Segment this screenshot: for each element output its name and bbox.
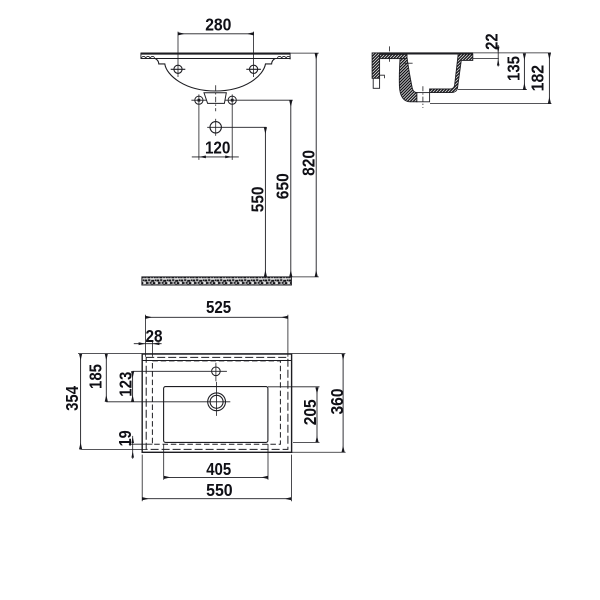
dim 28 [134,343,162,345]
back deck solid line [142,360,291,362]
svg-text:135: 135 [504,56,524,81]
wall bracket lower plate [373,78,379,88]
extension line mounting hole left [177,32,179,77]
dashed rim rectangle outer [146,357,288,449]
svg-text:19: 19 [115,430,135,446]
bowl bottom, front wall and front lip band (section) [430,54,473,93]
dim line 123 [132,371,134,402]
svg-text:123: 123 [115,372,135,397]
19 top extension [129,443,153,445]
dim line 820 [315,53,317,277]
extension line mounting hole right [253,32,255,77]
bracket hook [380,75,385,78]
stub centreline [422,86,424,108]
rim right end cap [289,53,291,59]
svg-text:550: 550 [206,480,233,500]
dim line 525 [145,316,288,318]
trap centre dash-dot line [215,85,217,111]
svg-text:205: 205 [300,399,320,425]
faucet hole [212,367,221,376]
525 extension left [144,315,146,357]
dim line 205 [316,387,318,442]
svg-text:650: 650 [272,173,292,199]
overflow tick [403,62,413,64]
faucet crosshair + 123 top extension [133,370,227,372]
360 bottom extension [292,451,346,453]
outer rectangle [142,354,291,452]
bowl rectangle [164,387,268,443]
mounting hole right [250,65,258,73]
rim bead bumps left [142,56,155,58]
dim line 280 [178,33,254,35]
dim 22 arrows [497,45,499,67]
550 extension right [290,455,292,502]
dim line 550 vertical [264,127,266,277]
drain outlet stub [417,93,430,102]
back wall and trap elbow band (section) [399,59,417,102]
svg-text:120: 120 [205,137,231,157]
525 extension right [287,315,289,357]
waste trap trapezoid [204,93,226,104]
bowl outer profile curve [155,59,275,92]
rim bead bumps right [277,56,290,58]
fixing bolt right [228,96,236,104]
top shared extension line (354/185/360) [78,353,345,355]
bracket hole centreline [389,46,391,63]
extension rim to 820 dim [290,52,318,54]
svg-text:405: 405 [206,459,231,479]
550 extension left [141,455,143,502]
back deck band (section) [380,54,407,58]
drain horizontal crosshair + 185/123 bottom extension [106,401,230,403]
205 top extension [268,386,320,388]
drain crosshair + extension to 550 [207,126,266,128]
svg-text:22: 22 [482,33,502,50]
floor strip [142,277,292,285]
deck top thick line [380,52,473,54]
205 bottom extension [293,441,320,443]
basin rim top edge [141,53,291,55]
drain outer circle [208,393,226,411]
svg-text:185: 185 [86,364,106,389]
22 lower reference line [473,58,499,60]
drain vertical crosshair [216,382,218,416]
dim line 360 [342,354,344,453]
deck extension line to 135/182 [473,52,551,54]
dashed rim rectangle inner [152,361,280,444]
stub bottom extension line [430,103,552,105]
rim second line [141,58,290,60]
dim 19 arrows [132,436,134,459]
svg-text:28: 28 [146,326,163,346]
drain inner circle [210,395,223,408]
svg-text:820: 820 [298,150,318,176]
dim line 354 [80,354,82,450]
fixing bolt left [195,96,203,104]
mounting hole left [174,65,182,73]
extension floor to 820 dim [292,276,319,278]
svg-text:182: 182 [528,65,548,92]
354/19 bottom extension [81,448,147,450]
bowl depth extension line [458,89,527,91]
drain hole circle [210,122,221,133]
svg-text:360: 360 [327,389,347,415]
dim line 182 [548,53,550,104]
dim line 135 [523,53,525,89]
dim line 550 [142,498,291,500]
svg-text:354: 354 [62,386,82,411]
svg-text:280: 280 [205,14,231,34]
405 extension right [267,444,269,480]
svg-text:525: 525 [206,297,232,317]
wall bracket hatched bar [372,53,380,78]
svg-text:550: 550 [248,187,268,213]
dim line 650 [290,100,292,277]
dim line 185 [105,354,107,402]
rim left end cap [140,53,142,59]
405 extension left [163,444,165,480]
dim line 120 [192,156,239,158]
dim line 405 [164,476,268,478]
